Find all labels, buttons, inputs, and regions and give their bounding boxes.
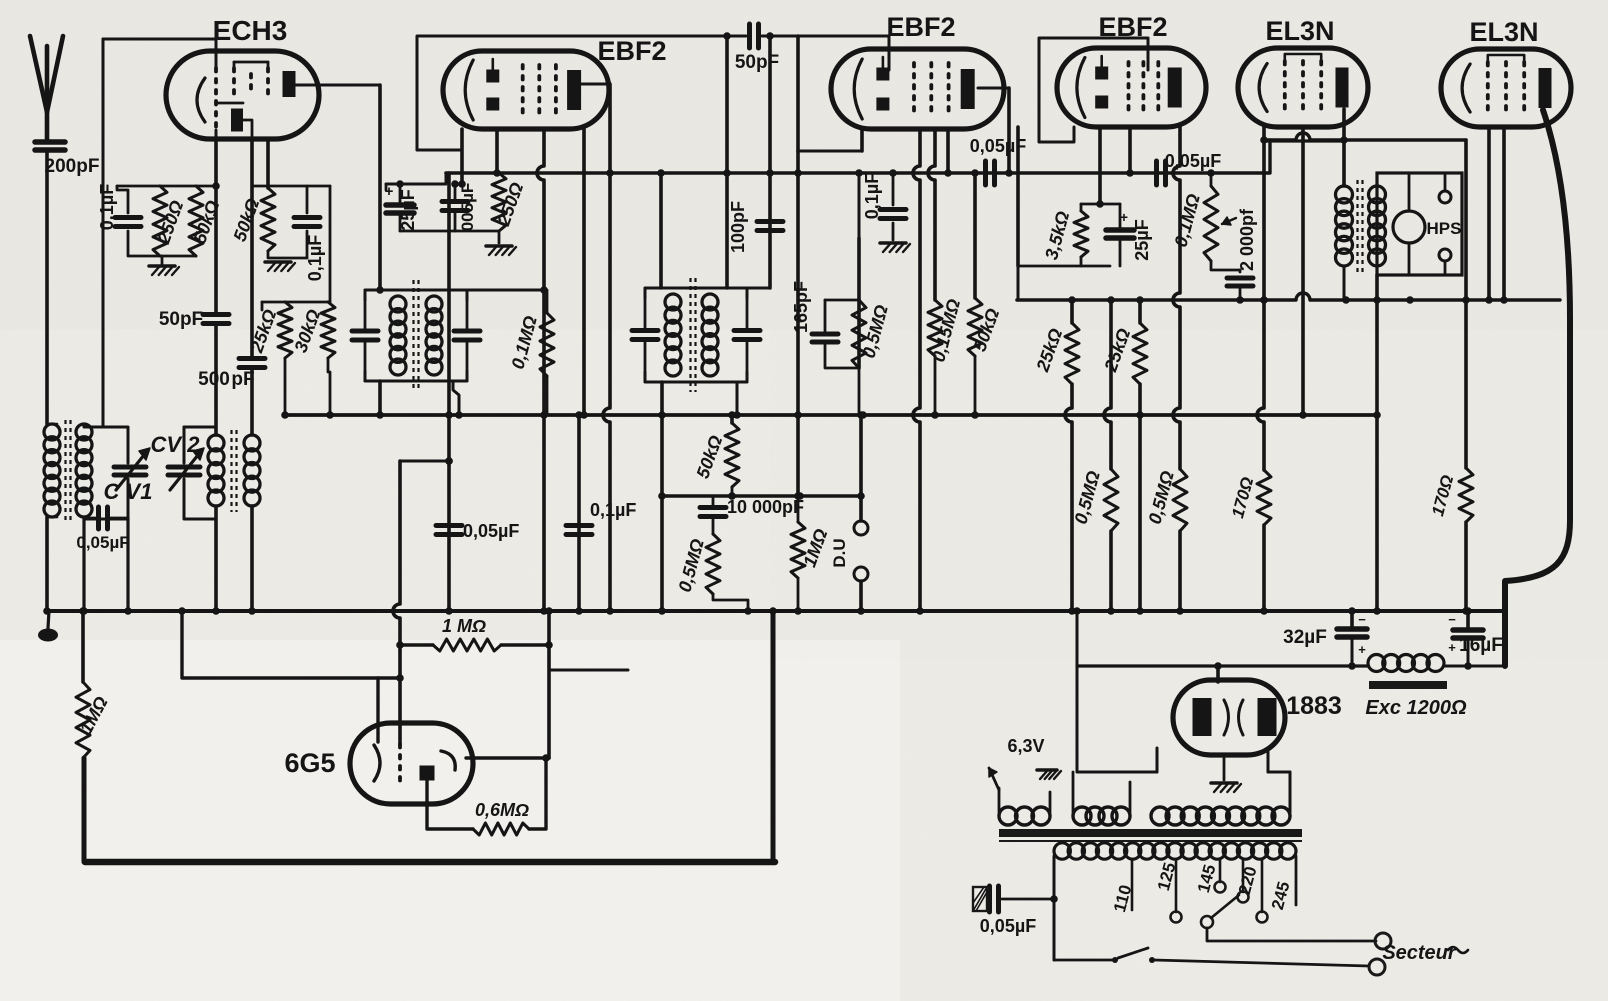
svg-text:2 000pf: 2 000pf (1237, 208, 1257, 271)
svg-text:165pF: 165pF (791, 281, 811, 333)
svg-text:200pF: 200pF (45, 156, 100, 177)
svg-text:pF: pF (231, 369, 254, 390)
svg-text:Exc 1200Ω: Exc 1200Ω (1365, 697, 1467, 719)
svg-text:25µF: 25µF (1132, 219, 1152, 260)
svg-text:6G5: 6G5 (284, 748, 335, 778)
svg-text:10 000pF: 10 000pF (727, 497, 804, 517)
svg-text:0,6MΩ: 0,6MΩ (475, 800, 529, 820)
svg-text:50pF: 50pF (159, 309, 203, 330)
svg-text:005µF: 005µF (458, 183, 477, 232)
svg-text:CV 2: CV 2 (151, 432, 201, 457)
svg-text:6,3V: 6,3V (1007, 736, 1044, 756)
svg-text:EBF2: EBF2 (886, 12, 955, 42)
svg-text:100pF: 100pF (728, 201, 748, 253)
svg-text:+: + (385, 183, 394, 200)
svg-text:16µF: 16µF (1459, 635, 1503, 656)
svg-text:1883: 1883 (1286, 692, 1342, 720)
svg-text:Secteur: Secteur (1382, 942, 1457, 964)
svg-text:0,05µF: 0,05µF (463, 521, 519, 541)
svg-text:+: + (1448, 640, 1456, 655)
svg-text:HPS: HPS (1427, 219, 1462, 238)
svg-text:1 MΩ: 1 MΩ (442, 616, 486, 636)
svg-text:−: − (1358, 612, 1366, 627)
svg-text:0,05µF: 0,05µF (980, 916, 1036, 936)
svg-text:0,1µF: 0,1µF (97, 184, 117, 230)
svg-text:0,1µF: 0,1µF (862, 173, 882, 219)
svg-text:EL3N: EL3N (1469, 17, 1538, 47)
svg-text:−: − (1448, 612, 1456, 627)
svg-text:+: + (1358, 642, 1366, 657)
svg-text:50pF: 50pF (735, 52, 779, 73)
svg-text:0,1µF: 0,1µF (305, 235, 325, 281)
svg-text:25µF: 25µF (398, 189, 418, 230)
svg-text:0,1µF: 0,1µF (590, 500, 636, 520)
svg-text:+: + (1120, 209, 1128, 225)
svg-text:0,05µF: 0,05µF (76, 533, 129, 552)
svg-text:EBF2: EBF2 (597, 36, 666, 66)
svg-text:ECH3: ECH3 (213, 15, 288, 46)
svg-text:C V1: C V1 (104, 479, 153, 504)
svg-text:EL3N: EL3N (1265, 16, 1334, 46)
svg-text:D.U: D.U (830, 538, 849, 567)
svg-text:500: 500 (198, 369, 230, 390)
svg-text:32µF: 32µF (1283, 627, 1327, 648)
